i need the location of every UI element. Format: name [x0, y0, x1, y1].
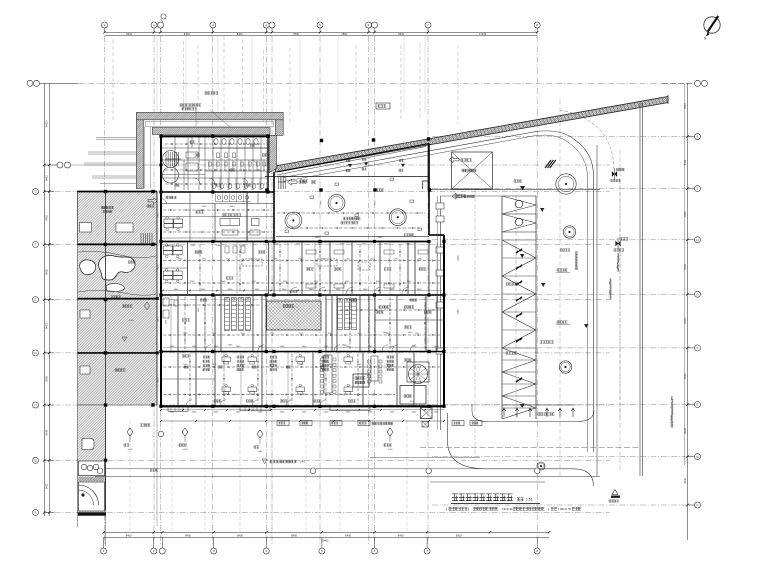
hall pipes: [277, 212, 425, 214]
building top striped band: [152, 128, 270, 135]
paving diagonal symbol: [545, 160, 551, 168]
top-left block pipes: [165, 143, 265, 145]
parking zigzag stalls: [502, 240, 536, 419]
band A extra furniture: [306, 250, 316, 254]
top-left fixtures row2: [209, 162, 212, 166]
svg-text:7800: 7800: [158, 317, 160, 323]
plaza edge below skylight: [428, 189, 600, 191]
left pair bubbles row 165: [57, 162, 63, 168]
building outer walls: [161, 135, 270, 137]
svg-text:7800: 7800: [158, 212, 160, 218]
svg-text:8400: 8400: [291, 533, 297, 537]
svg-text:3400: 3400: [230, 206, 236, 208]
title underline: [451, 502, 540, 504]
hall label: [343, 217, 346, 220]
svg-text:-0.45: -0.45: [183, 449, 189, 451]
label boxes row: [277, 421, 289, 426]
left dimension lines: [43, 83, 45, 516]
skylight hatch box: [267, 301, 322, 330]
landscape hatch block mid: [78, 300, 158, 405]
svg-text:A: A: [34, 511, 36, 515]
grid vertical axis lines: [104, 36, 106, 544]
hatched elbow band: [269, 135, 276, 172]
svg-text:8400: 8400: [126, 533, 132, 537]
band A dashed equipment: [242, 259, 262, 266]
wc fixtures: [214, 139, 218, 145]
svg-text:9000: 9000: [456, 533, 462, 537]
svg-text:2140: 2140: [202, 206, 208, 208]
hall glass front line: [276, 235, 429, 237]
band B right room labels: [379, 306, 381, 308]
road below diagonal strip inner curb: [283, 135, 588, 452]
small stair in hatch: [140, 233, 142, 244]
building main inner walls: [161, 191, 274, 193]
west plaza labels: [115, 369, 117, 372]
svg-text:8400: 8400: [185, 533, 191, 537]
svg-text:8400: 8400: [237, 32, 243, 36]
top area leader lines: [210, 110, 230, 127]
book stacks right: [338, 299, 343, 330]
top-left block partitions: [174, 137, 176, 190]
SE small xbox: [422, 422, 429, 428]
hall interior trees: [285, 212, 302, 229]
band A door arcs: [290, 287, 297, 294]
svg-text:-0.45: -0.45: [388, 449, 394, 451]
extra projection verticals top: [112, 39, 114, 120]
grid horizontal axis lines (site set): [432, 136, 690, 138]
hall canopy edge line: [265, 176, 429, 178]
band B left fixtures: [163, 298, 169, 306]
right dimension line: [687, 83, 689, 540]
south road north line: [105, 468, 486, 470]
svg-text:9400: 9400: [684, 478, 687, 484]
trench thin rect: [146, 122, 274, 127]
band A desk clusters left: [164, 246, 173, 250]
svg-text:B: B: [34, 458, 36, 462]
band C label stacks in rooms: [203, 356, 205, 358]
fire lane text: [262, 459, 267, 464]
pond blobs: [99, 255, 135, 280]
boxed room label: [353, 374, 369, 387]
svg-text:8400: 8400: [158, 377, 160, 383]
band A fixtures mid: [225, 246, 229, 253]
bottom axis bubbles: [103, 537, 105, 548]
west plaza extra: [128, 261, 130, 263]
small rooms SE: [400, 386, 426, 405]
spiral stair circle: [409, 365, 428, 384]
road east curb: [596, 145, 598, 476]
road vertical text: [576, 252, 578, 254]
hall entrance arrow west: [288, 179, 298, 185]
svg-text:F: F: [697, 346, 699, 350]
fountain quarter: [79, 482, 105, 511]
svg-text:-0.45: -0.45: [299, 461, 305, 464]
left retaining step line pairs: [96, 137, 136, 139]
strip braid ticks: [277, 166, 279, 171]
svg-text:7800: 7800: [158, 265, 160, 271]
south facade entries: [240, 406, 270, 411]
west trench verticals: [144, 127, 146, 189]
down-arrow marks: [520, 186, 525, 191]
road below diagonal strip outer curb: [283, 131, 594, 452]
west wall door arc: [161, 199, 167, 205]
parking boundary rounded: [472, 404, 594, 422]
svg-text:8400: 8400: [45, 429, 48, 435]
svg-text:): ): [468, 507, 469, 511]
NE plaza canopy columns: [320, 139, 323, 142]
south boundary long line: [95, 476, 600, 478]
top-left block extra partitions: [183, 160, 185, 190]
extra projection verticals bottom: [129, 420, 131, 531]
svg-text:8400: 8400: [46, 483, 49, 489]
band B partitions: [177, 296, 179, 351]
band B doors: [205, 345, 211, 351]
east boundary vertical text: [671, 397, 673, 399]
svg-text:8400: 8400: [398, 533, 404, 537]
hall column row y190: [265, 188, 268, 191]
parking aisle lines: [501, 196, 503, 419]
diagonal hatched road strip: [276, 97, 669, 173]
columns on axes: [159, 240, 162, 243]
svg-text:8400: 8400: [45, 323, 48, 329]
band L2 pipes: [163, 209, 272, 211]
doors top-left block: [194, 178, 200, 184]
notes above building: [180, 104, 182, 107]
svg-text:1:51: 1:51: [526, 498, 533, 502]
svg-text:H: H: [696, 238, 698, 242]
hydrant symbols: [612, 171, 617, 177]
title text: [452, 494, 458, 501]
book stacks left: [225, 298, 230, 331]
band C partitions: [177, 353, 179, 406]
band C doors: [186, 400, 192, 406]
svg-text:7800: 7800: [293, 32, 299, 36]
band B texts: [182, 319, 184, 322]
landscape label: [101, 206, 103, 208]
svg-text:K: K: [696, 135, 698, 139]
axis line row 83: [78, 82, 662, 84]
south road curves: [448, 413, 594, 486]
long table 1: [324, 355, 332, 393]
band A pipes: [163, 260, 440, 262]
svg-text:F: F: [35, 243, 37, 247]
svg-text:E: E: [34, 298, 36, 302]
pond contour curves: [78, 251, 156, 257]
parking west planter line: [440, 196, 442, 430]
extra stacked bubble: [161, 14, 166, 19]
A-zone label box: [376, 103, 390, 109]
svg-text:17100: 17100: [479, 32, 487, 36]
SE corner annex: [421, 408, 433, 419]
bottom dimension lines: [104, 531, 549, 533]
band C dim row below wall: [161, 409, 444, 411]
X skylight box NE plaza: [452, 152, 493, 189]
svg-text:8400: 8400: [237, 533, 243, 537]
east dashed utility line: [619, 180, 621, 420]
entrance arrows plaza: [452, 193, 462, 199]
hall small marks: [285, 230, 289, 233]
svg-text:8400: 8400: [345, 533, 351, 537]
band C room labels: [184, 366, 186, 368]
grid horizontal axis lines (building set): [44, 164, 610, 166]
hall slant wall: [277, 144, 429, 172]
curved guide from strip to hydrant: [560, 110, 614, 168]
svg-text:8400: 8400: [45, 175, 48, 181]
svg-text:E: E: [696, 403, 698, 407]
misc small bubbles on site lines: [426, 468, 432, 474]
band C pipes: [163, 366, 440, 368]
svg-text:8400: 8400: [45, 376, 48, 382]
outer frame left arm: [136, 120, 143, 189]
stair ovals: [163, 151, 179, 168]
landscape white box with circles: [79, 461, 105, 476]
trees in parking: [556, 174, 576, 194]
band B pipes: [163, 304, 260, 306]
boundary double line east: [639, 103, 641, 476]
top dimension lines: [105, 31, 538, 33]
landscape hatch strip lower: [78, 405, 106, 513]
rounded planter in strip: [82, 439, 94, 450]
small room texts: [195, 154, 197, 156]
strip bottom stub lines: [105, 516, 107, 546]
band A texts: [195, 251, 197, 253]
svg-text:8400: 8400: [184, 32, 190, 36]
svg-text:-0.60: -0.60: [129, 320, 135, 322]
left axis bubbles: [44, 191, 54, 193]
right axis bubbles: [688, 136, 695, 138]
strip boundary verticals: [105, 192, 107, 511]
svg-text:2700: 2700: [458, 255, 460, 261]
diamond survey symbols: [127, 428, 133, 436]
right top pair bubbles: [695, 80, 701, 86]
band L2 big tables: [220, 219, 240, 226]
hall west stair block: [278, 176, 280, 190]
svg-text:8400: 8400: [126, 32, 132, 36]
band B dim row: [163, 347, 442, 349]
drain symbol right of title: [612, 490, 618, 495]
site minor vertical lines: [474, 190, 476, 455]
right dim second line: [684, 83, 686, 465]
mid block cross hatch overlay: [78, 300, 158, 405]
parking bottom arrow row: [502, 404, 575, 406]
parking labels: [506, 283, 508, 285]
svg-text:8400: 8400: [45, 215, 48, 221]
band L2 wc fixtures top: [214, 204, 216, 242]
stair top-left: [165, 152, 167, 166]
outer frame right arm: [275, 120, 283, 136]
planter boxes in hatch: [80, 223, 92, 233]
svg-text:Pa-1: Pa-1: [410, 401, 415, 403]
svg-text:8400: 8400: [398, 32, 404, 36]
svg-text::1319.31: :1319.31: [501, 507, 513, 511]
north arrow: [704, 17, 720, 33]
landscape thick dividers: [78, 191, 158, 193]
hall NE niche: [423, 181, 430, 189]
svg-text:1750: 1750: [458, 309, 460, 315]
band C desk pairs: [222, 357, 231, 362]
dashed service line: [420, 447, 640, 449]
landscape hatch block upper: [78, 192, 158, 245]
top axis bubbles: [104, 28, 106, 32]
hatch strip end black band: [78, 513, 107, 516]
west entry arrow: [148, 198, 158, 204]
left mid diamond: [144, 302, 149, 310]
band A dim row: [163, 290, 442, 292]
band B room labels top: [200, 299, 202, 301]
svg-text:-0.45: -0.45: [258, 451, 264, 453]
landscape hatch block pond area: [78, 244, 158, 299]
band A partitions: [187, 243, 189, 295]
svg-text:):4813.75: ):4813.75: [558, 507, 571, 511]
top-left corridor line: [161, 174, 205, 176]
band L2 texts: [166, 196, 168, 199]
svg-text:-0.45: -0.45: [128, 449, 134, 451]
stall star marks: [516, 249, 522, 253]
south second line: [161, 420, 444, 422]
band C texts: [182, 355, 184, 357]
outer hatched frame top band: [136, 112, 283, 119]
band L2 partitions: [161, 203, 274, 205]
parking top slots with circles: [502, 195, 536, 197]
svg-text:8400: 8400: [46, 121, 49, 127]
svg-text:8400: 8400: [46, 269, 49, 275]
svg-text:7800: 7800: [341, 32, 347, 36]
svg-text:50400: 50400: [322, 540, 329, 543]
left top pair bubbles y83: [27, 80, 33, 86]
riser symbols above canopy: [348, 164, 352, 167]
band L2 desk cluster: [164, 219, 173, 223]
long table 2: [371, 356, 378, 381]
